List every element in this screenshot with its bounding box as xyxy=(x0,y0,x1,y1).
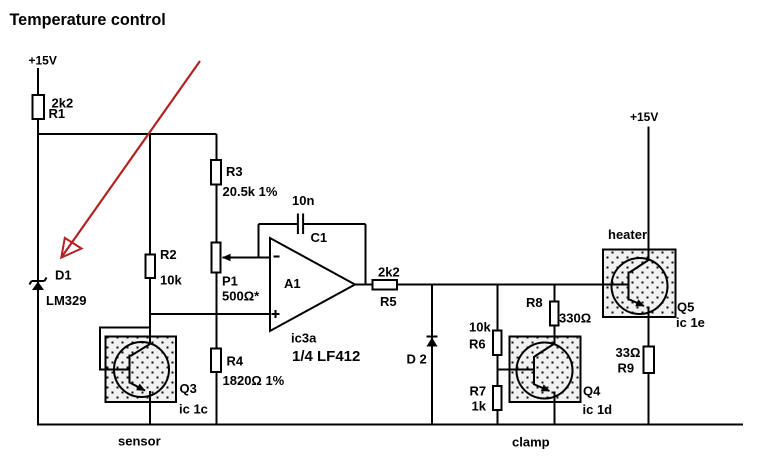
svg-text:10k: 10k xyxy=(160,273,182,288)
svg-text:A1: A1 xyxy=(284,276,301,291)
svg-text:ic 1e: ic 1e xyxy=(676,315,705,330)
svg-text:Q5: Q5 xyxy=(677,300,694,315)
svg-text:1k: 1k xyxy=(472,399,487,414)
svg-text:C1: C1 xyxy=(311,230,328,245)
wire R7 to bottom rail xyxy=(497,410,499,425)
svg-text:R8: R8 xyxy=(526,295,543,310)
P1 wiper arrow to inverting input xyxy=(223,257,271,259)
resistor R3 xyxy=(211,160,221,185)
wire feedback vertical right to output xyxy=(365,224,367,285)
svg-text:Q3: Q3 xyxy=(180,381,197,396)
wire feedback top right segment xyxy=(304,223,366,225)
wire R6 to R7 xyxy=(497,355,499,386)
svg-text:sensor: sensor xyxy=(118,434,161,449)
svg-text:+15V: +15V xyxy=(630,110,658,124)
wire Q4 emitter to rail xyxy=(554,392,556,425)
wire R3 to P1 xyxy=(216,185,218,243)
wire Q5 emitter to R9 xyxy=(648,307,650,347)
svg-text:10n: 10n xyxy=(292,193,314,208)
wire op-amp output to R5 xyxy=(355,284,373,286)
svg-text:R4: R4 xyxy=(227,354,244,369)
wire R2 branch from top rail xyxy=(149,134,151,255)
wire top horizontal xyxy=(37,133,217,135)
wire R9 to bottom rail xyxy=(648,373,650,425)
svg-text:R1: R1 xyxy=(49,106,66,121)
wire feedback vertical left xyxy=(258,224,260,258)
Q3 symbol xyxy=(114,342,169,397)
svg-text:20.5k 1%: 20.5k 1% xyxy=(223,184,278,199)
svg-text:ic3a: ic3a xyxy=(291,331,317,346)
svg-text:clamp: clamp xyxy=(512,435,550,450)
wire R4 to bottom rail xyxy=(216,372,218,425)
svg-text:P1: P1 xyxy=(222,274,238,289)
resistor R2 xyxy=(146,255,156,279)
Q4 symbol xyxy=(517,343,573,399)
svg-text:R6: R6 xyxy=(469,337,486,352)
svg-text:R2: R2 xyxy=(160,247,177,262)
wire Q4 base xyxy=(498,369,535,371)
wire +15V to R1 xyxy=(37,68,39,95)
wire left rail (R1 down through D1 to bottom) xyxy=(37,119,39,425)
diode D2 xyxy=(427,337,438,347)
op-amp plus sign xyxy=(272,310,280,318)
wire R3 branch from top rail xyxy=(216,134,218,160)
svg-text:R5: R5 xyxy=(380,294,397,309)
resistor R8 xyxy=(550,302,559,326)
capacitor C1 xyxy=(298,214,303,235)
wire R8 to Q4 collector xyxy=(554,326,556,344)
svg-text:D 2: D 2 xyxy=(407,352,427,367)
transistor Q3 box xyxy=(106,337,177,403)
wire Q3 base loop (collector to base) xyxy=(100,328,150,370)
svg-text:ic 1c: ic 1c xyxy=(179,402,208,417)
op-amp minus sign xyxy=(274,256,280,258)
svg-text:ic 1d: ic 1d xyxy=(583,402,613,417)
svg-text:10k: 10k xyxy=(469,320,491,335)
Q5 symbol xyxy=(612,258,668,314)
wire R6 branch xyxy=(497,285,499,331)
resistor R1 xyxy=(33,95,45,119)
transistor Q5 box xyxy=(603,250,676,318)
wire bottom rail xyxy=(37,424,743,426)
wire R8 branch xyxy=(554,285,556,302)
wire Q3 emitter to rail xyxy=(149,391,151,425)
potentiometer P1 body xyxy=(212,243,221,273)
svg-text:heater: heater xyxy=(608,227,647,242)
zener diode D1 xyxy=(30,278,47,291)
op-amp A1 xyxy=(270,238,355,331)
resistor R6 xyxy=(493,331,502,356)
wire R5 to Q5 base xyxy=(397,284,629,286)
resistor R9 xyxy=(644,347,655,374)
wire non-inverting input xyxy=(150,313,270,315)
wire R2 to Q3 collector xyxy=(149,278,151,345)
resistor R7 xyxy=(493,386,502,410)
wire +15V to Q5 collector xyxy=(648,127,650,261)
red annotation arrow xyxy=(61,61,200,258)
svg-text:330Ω: 330Ω xyxy=(559,311,591,326)
svg-text:1/4 LF412: 1/4 LF412 xyxy=(292,348,360,365)
svg-text:D1: D1 xyxy=(55,268,72,283)
resistor R4 xyxy=(211,349,221,373)
svg-text:1820Ω 1%: 1820Ω 1% xyxy=(223,373,285,388)
svg-text:+15V: +15V xyxy=(29,54,57,68)
svg-text:2k2: 2k2 xyxy=(378,265,400,280)
svg-text:R9: R9 xyxy=(618,361,635,376)
transistor Q4 box xyxy=(510,337,581,403)
svg-text:R7: R7 xyxy=(470,384,487,399)
svg-text:LM329: LM329 xyxy=(46,293,86,308)
wire D2 branch xyxy=(431,285,433,425)
svg-text:R3: R3 xyxy=(226,164,243,179)
wire feedback top left segment xyxy=(259,223,298,225)
svg-text:Temperature control: Temperature control xyxy=(10,11,166,29)
wire P1 to R4 xyxy=(216,273,218,349)
svg-text:500Ω*: 500Ω* xyxy=(222,289,260,304)
resistor R5 xyxy=(373,280,398,290)
svg-text:33Ω: 33Ω xyxy=(616,345,641,360)
svg-text:Q4: Q4 xyxy=(583,384,601,399)
